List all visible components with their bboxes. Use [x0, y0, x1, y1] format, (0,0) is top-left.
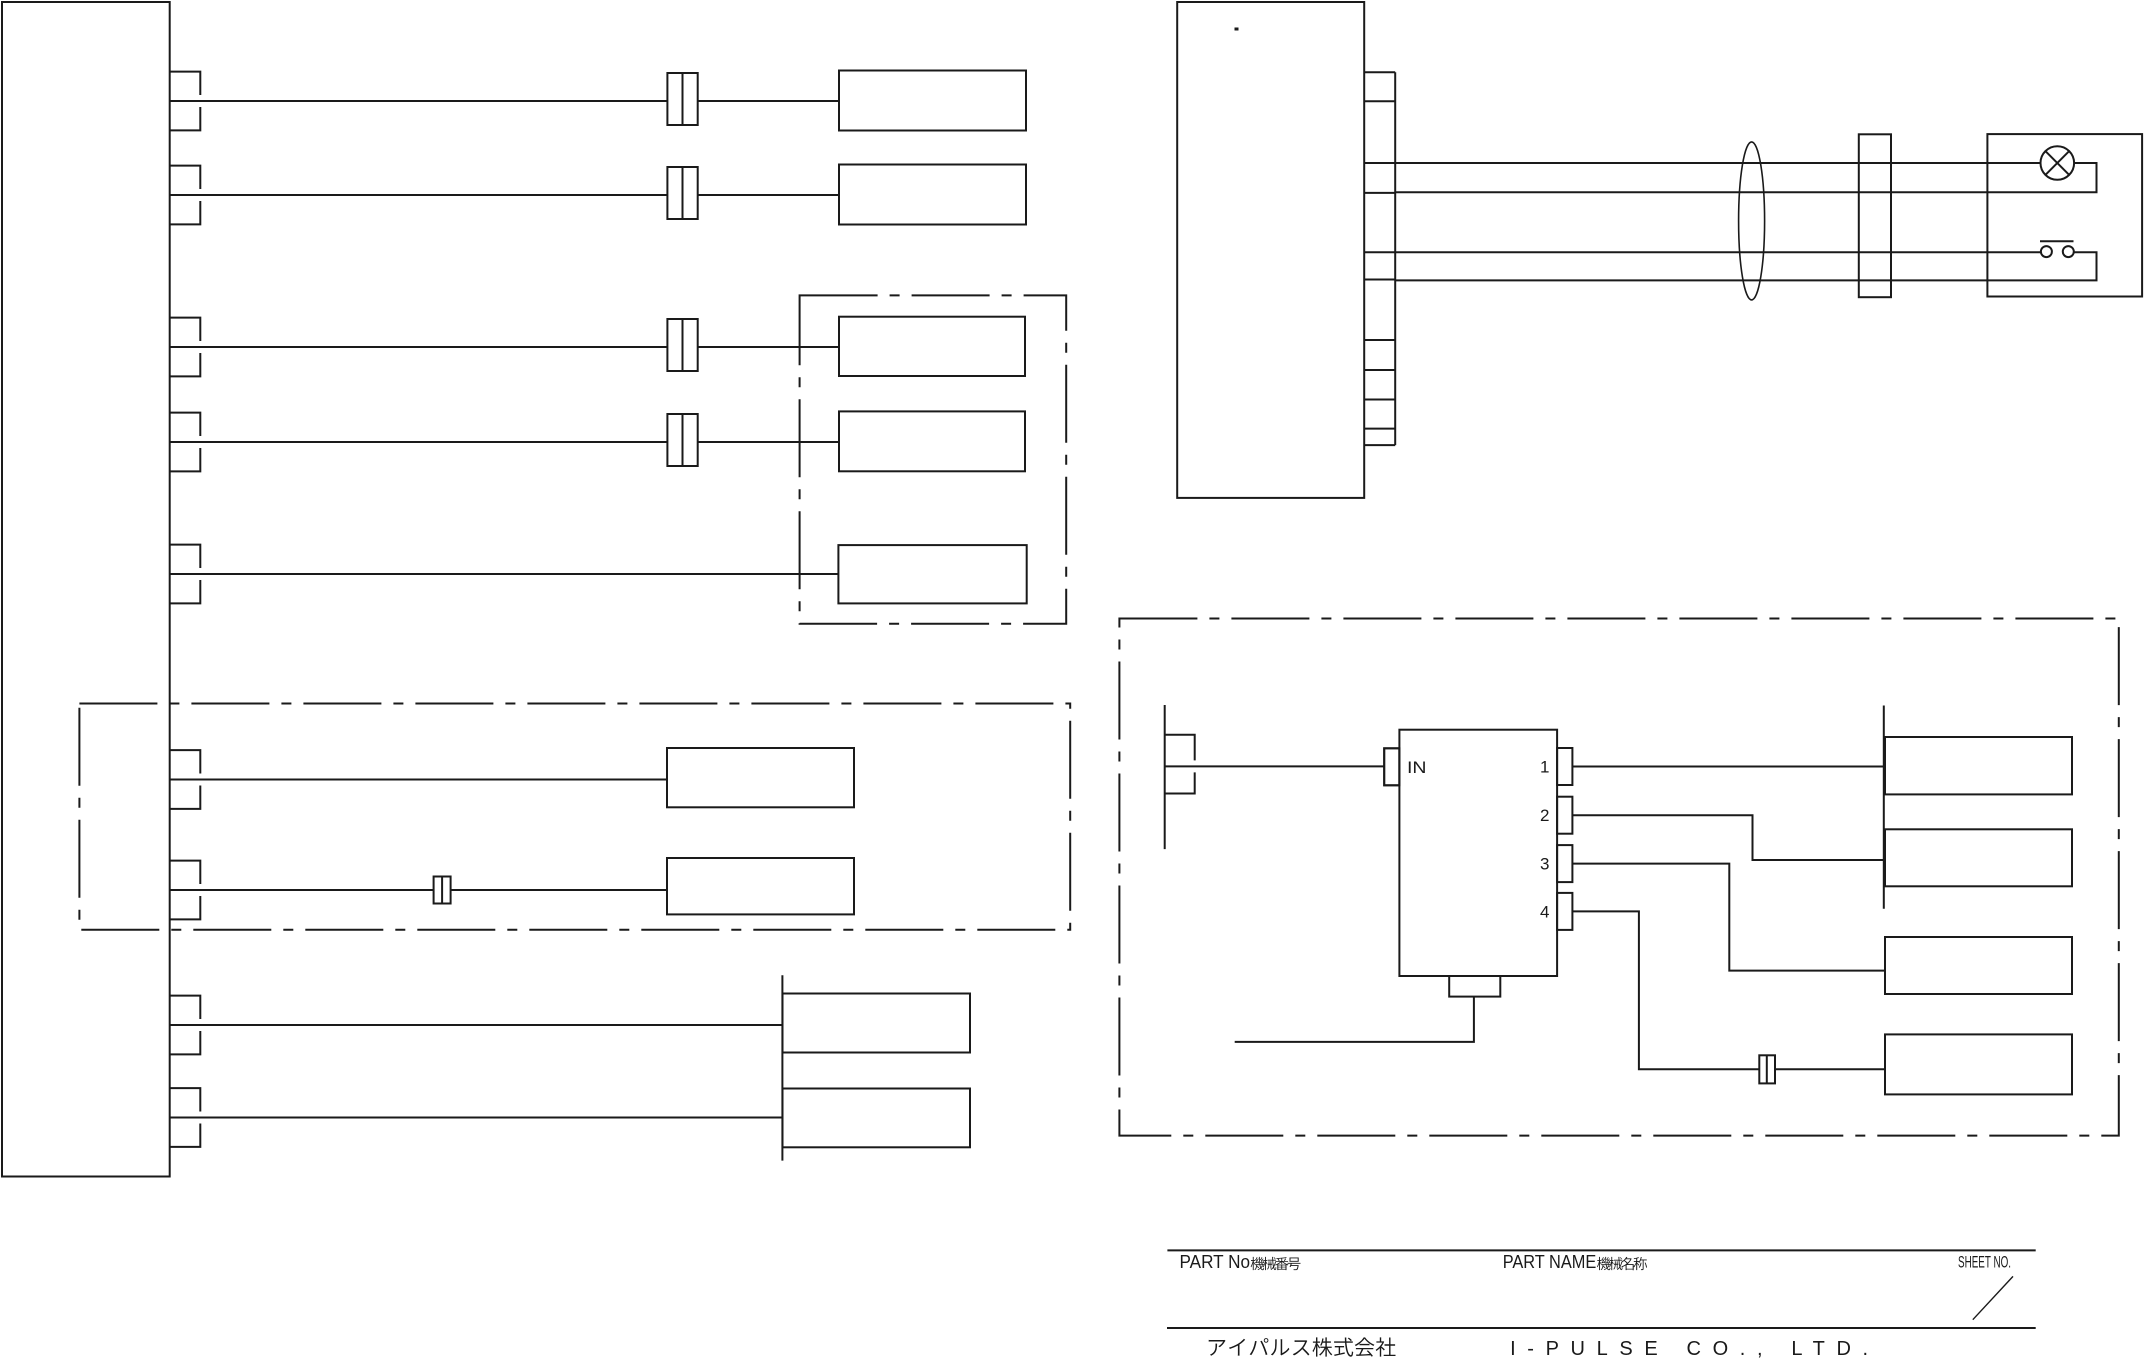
IN pin stub border redraw — [1384, 748, 1399, 785]
pin stub P8 of CN1 — [170, 996, 201, 1055]
text kikai_meishou — [1597, 1257, 1647, 1270]
pin stub P3 of CN1 — [170, 318, 201, 377]
component box M3 — [1885, 937, 2072, 994]
cable clamp — [1859, 134, 1891, 297]
wire from P1 — [170, 100, 839, 102]
bus line right — [1883, 706, 1885, 909]
pin stub P7 of CN1 — [170, 861, 201, 920]
pin stub P1 of CN1 — [170, 72, 201, 131]
connector J4 — [667, 414, 697, 466]
wire out2 — [1572, 815, 1885, 860]
svg-text:2: 2 — [1540, 806, 1549, 825]
svg-text:3: 3 — [1540, 855, 1549, 874]
input rail — [1164, 705, 1166, 849]
dash-dot enclosure E1 — [800, 295, 1067, 623]
bus line for K8 K9 — [781, 975, 783, 1160]
component box M4 — [1885, 1034, 2072, 1094]
component box M2 — [1885, 829, 2072, 886]
switch SW1 — [2040, 241, 2074, 257]
bottom pin stub — [1449, 976, 1500, 997]
svg-text:IN: IN — [1407, 758, 1427, 777]
pin stub P5 of CN1 — [170, 545, 201, 604]
svg-text:1: 1 — [1540, 758, 1549, 777]
wire lamp return — [1395, 163, 2096, 192]
wire from P3 — [170, 346, 839, 348]
connector J3 — [667, 319, 697, 371]
wire from P2 — [170, 194, 839, 196]
connector block CN2 — [1177, 2, 1364, 498]
component box K3 — [839, 317, 1025, 376]
component box K6 — [667, 748, 854, 807]
svg-text:SHEET NO.: SHEET NO. — [1958, 1253, 2011, 1271]
distributor box U1 — [1399, 730, 1557, 976]
component box K2 — [839, 165, 1026, 225]
pin stub out2 — [1557, 797, 1572, 834]
wire out3 — [1572, 864, 1885, 971]
pin stub out3 — [1557, 845, 1572, 882]
dot mark — [1235, 28, 1239, 31]
sheet diagonal — [1973, 1276, 2013, 1319]
dash-dot enclosure E3 — [1119, 619, 2118, 1136]
text company — [1209, 1337, 1396, 1356]
wire from P5 — [170, 573, 839, 575]
pin stub P9 of CN1 — [170, 1088, 201, 1147]
connector J8 — [1759, 1055, 1775, 1083]
cable bundle ellipse — [1739, 142, 1765, 300]
connector J1 — [667, 73, 697, 125]
wire from P9 — [170, 1117, 783, 1119]
wire switch feed — [1395, 251, 2041, 253]
wire from P7 — [170, 889, 667, 891]
pin stub P2 of CN1 — [170, 166, 201, 225]
connector J2 — [667, 167, 697, 219]
wire out1 — [1572, 766, 1885, 768]
component box K9 — [783, 1089, 971, 1148]
component box K4 — [839, 411, 1025, 471]
wire input to IN — [1165, 765, 1385, 767]
wire from P4 — [170, 441, 839, 443]
wire from P6 — [170, 779, 667, 781]
connector block CN1 — [2, 2, 170, 1177]
wire switch return — [1395, 252, 2096, 280]
component box K1 — [839, 71, 1026, 131]
title line top — [1167, 1249, 2035, 1251]
text kikai_bangou — [1251, 1257, 1301, 1270]
dash-dot enclosure E2 — [79, 704, 1070, 930]
component box M1 — [1885, 737, 2072, 794]
lamp PL1 — [2041, 146, 2075, 180]
wire out4 — [1572, 911, 1885, 1069]
component box K5 — [838, 545, 1026, 603]
pin stub out1 — [1557, 748, 1572, 785]
svg-text:4: 4 — [1540, 902, 1549, 921]
terminal column of CN2 — [1364, 72, 1395, 445]
svg-text:PART No: PART No — [1180, 1252, 1251, 1272]
component box K7 — [667, 858, 854, 914]
ground wire L — [1235, 997, 1474, 1042]
wire lamp feed — [1395, 162, 2040, 164]
title line bottom — [1167, 1327, 2036, 1329]
pin stub P4 of CN1 — [170, 413, 201, 472]
pin stub P6 of CN1 — [170, 750, 201, 809]
svg-text:PART NAME: PART NAME — [1503, 1252, 1597, 1272]
IN pin stub — [1384, 748, 1399, 785]
connector J7 — [434, 877, 451, 904]
component box K8 — [783, 994, 971, 1053]
input stub — [1165, 735, 1195, 794]
svg-text:I-PULSE CO., LTD.: I-PULSE CO., LTD. — [1510, 1338, 1868, 1360]
pin stub out4 — [1557, 893, 1572, 930]
wire from P8 — [170, 1024, 783, 1026]
lamp-switch unit box — [1987, 134, 2142, 296]
